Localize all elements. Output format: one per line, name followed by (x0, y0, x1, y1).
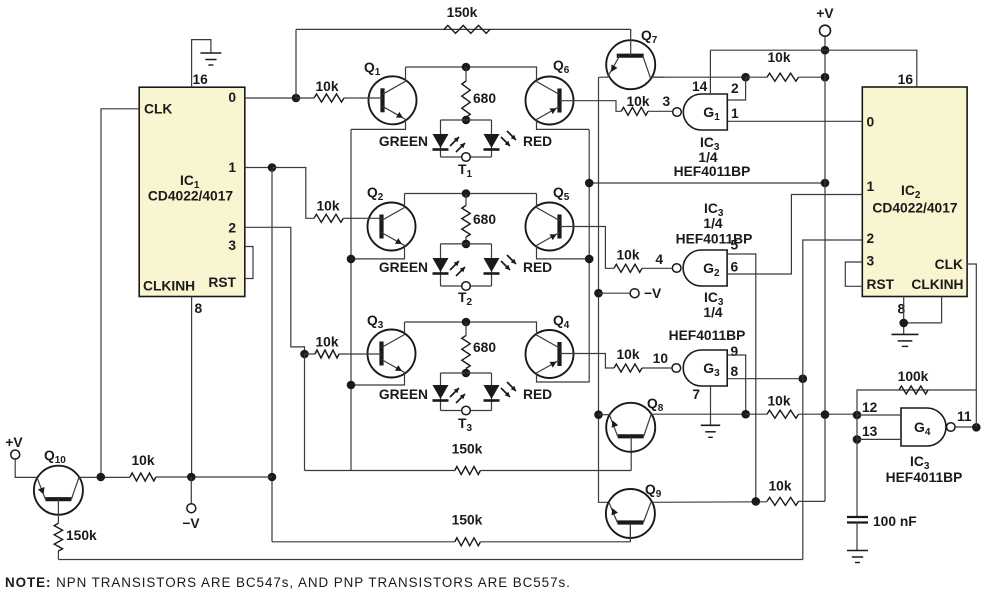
svg-text:RST: RST (867, 277, 895, 292)
label G1 pin3 (663, 94, 671, 109)
LED green row2 (433, 258, 449, 274)
svg-text:14: 14 (692, 79, 708, 94)
label 10k Q9 row (768, 478, 791, 493)
wire +V to Q10 emitter (15, 459, 37, 477)
resistor R 10k G3 (614, 364, 642, 372)
junction +V rail16 (821, 46, 830, 55)
wire 150k row1 to Q8 base (480, 447, 631, 471)
wire 10k to Q4 base (584, 354, 615, 369)
resistor R 150k Q10 (54, 523, 62, 551)
ground G3 pin7 (701, 425, 720, 437)
wire Q8 row to +V (746, 413, 857, 415)
label Q8 (647, 396, 664, 414)
svg-text:2: 2 (228, 221, 236, 236)
junction Q2 emitter (347, 255, 356, 264)
IC1 name IC1 (180, 173, 200, 191)
wire IC1 pin1 row (245, 167, 272, 169)
svg-text:10k: 10k (616, 248, 639, 263)
terminal -V left (187, 504, 196, 513)
resistor R 680 row3 (462, 322, 470, 373)
svg-text:T3: T3 (458, 416, 472, 434)
label G2 IC3 (704, 201, 724, 219)
svg-text:10k: 10k (626, 94, 649, 109)
label RED row3 (523, 387, 552, 402)
junction row1 rail (462, 63, 471, 72)
wire 10k to Q1 base (296, 97, 359, 99)
svg-text:4: 4 (655, 252, 663, 267)
label G2 pin5 (731, 238, 739, 253)
note text (5, 575, 571, 590)
label G2 pin4 (655, 252, 663, 267)
resistor R 10k Q1 (314, 94, 344, 102)
label G1 pin1 (731, 106, 739, 121)
svg-text:RED: RED (523, 134, 552, 149)
label G3 HEF4011BP (669, 328, 746, 343)
wire IC2 CLK to G4 out (967, 264, 976, 390)
IC2 pin label 1 (867, 179, 875, 194)
label G3 pin10 (653, 351, 669, 366)
wire Q7 emitter bus (598, 77, 600, 500)
wire Q7 collector row (650, 76, 745, 78)
label GREEN row1 (379, 134, 428, 149)
svg-text:100 nF: 100 nF (873, 514, 917, 529)
terminal +V bottom left (11, 450, 20, 459)
svg-text:680: 680 (473, 340, 496, 355)
label 150k Q8 (452, 442, 483, 457)
label 10k G3 (616, 347, 639, 362)
svg-text:Q3: Q3 (367, 313, 384, 331)
svg-text:1/4: 1/4 (698, 150, 718, 165)
wire Q9 collector row (651, 501, 767, 504)
LED red row3 (484, 385, 500, 401)
terminal T1 (462, 153, 471, 162)
gate G3 NAND (672, 350, 727, 386)
IC1 pin label 2 (228, 221, 236, 236)
wire G2 out to 10k (642, 267, 672, 269)
wire G3 pin9 (727, 355, 746, 414)
wire IC1 pin8 down (191, 297, 193, 478)
svg-text:100k: 100k (898, 369, 929, 384)
wire IC1 pin0 row (245, 97, 296, 99)
label GREEN row2 (379, 260, 428, 275)
label Q6 (553, 58, 570, 76)
wire pin0 riser (295, 29, 297, 98)
svg-text:10k: 10k (767, 50, 790, 65)
junction G4 pin13 (853, 435, 862, 444)
label G4 pin12 (862, 400, 878, 415)
svg-text:12: 12 (862, 400, 878, 415)
LED red row1 (484, 134, 500, 150)
svg-text:10k: 10k (768, 478, 791, 493)
wire G4 feedback (857, 390, 976, 427)
svg-text:10k: 10k (315, 334, 338, 349)
junction 10k +V (821, 73, 830, 82)
svg-text:13: 13 (862, 424, 878, 439)
svg-text:9: 9 (731, 344, 739, 359)
svg-text:3: 3 (663, 94, 671, 109)
wire LED box row2 (441, 244, 492, 286)
label G2 pin6 (731, 260, 739, 275)
svg-text:1: 1 (731, 106, 739, 121)
junction G3 pin8 (799, 374, 808, 383)
wire Q10 150k to rail (57, 551, 59, 560)
junction -V left (187, 473, 196, 482)
label +V top (816, 6, 834, 21)
svg-text:HEF4011BP: HEF4011BP (886, 470, 963, 485)
wire 10k to Q5 base (584, 227, 615, 269)
ground at IC1 pin16 (200, 53, 221, 65)
label G3 1/4 (703, 305, 723, 320)
terminal -V right (630, 289, 639, 298)
wire IC1 pin2 row (245, 227, 305, 354)
label Q9 (645, 482, 662, 500)
resistor R 680 row2 (462, 194, 470, 244)
wire 10k to Q6 base (584, 101, 622, 112)
junction Q8 row +V (821, 410, 830, 419)
IC1 pin label 3 (228, 238, 236, 253)
wire rail to Q7 base (630, 29, 632, 31)
wire pin2 net down (304, 354, 306, 471)
svg-text:0: 0 (228, 90, 236, 105)
LED green row1 (433, 134, 449, 150)
label +V bottom left (5, 435, 23, 450)
svg-text:7: 7 (692, 387, 700, 402)
wire bottom rail (58, 559, 802, 561)
wire Q9 base (629, 524, 631, 542)
resistor R 10k Q3 (305, 350, 358, 358)
IC IC2 CD4022/4017 body (862, 87, 967, 297)
wire Q8 emitter row (599, 414, 610, 416)
svg-text:16: 16 (898, 72, 914, 87)
junction -V right bus (594, 289, 603, 298)
wire G4 in tie (856, 415, 858, 439)
label 10k pullup G1 (767, 50, 790, 65)
svg-text:16: 16 (193, 72, 209, 87)
wire 10k to +V (746, 76, 825, 78)
LED green arrows row2 (450, 261, 465, 276)
wire pin13 to cap (856, 439, 858, 517)
wire G3 out to 10k (642, 367, 672, 369)
label 150k top (447, 5, 478, 20)
wire LED box row1 (441, 120, 492, 157)
wire emitter rail to +V (589, 182, 825, 184)
svg-text:GREEN: GREEN (379, 134, 428, 149)
wire row2 rail (405, 193, 537, 195)
transistor Q2 (351, 194, 416, 259)
label G3 IC3 (704, 290, 724, 308)
transistor Q9 (606, 489, 655, 538)
svg-text:11: 11 (957, 409, 972, 424)
label Q10 (44, 448, 66, 466)
junction emitter rail +V (821, 179, 830, 188)
junction row3 rail (462, 318, 471, 327)
wire cap to ground (856, 523, 858, 551)
label G3 pin7 (692, 387, 700, 402)
resistor R 100k (899, 386, 928, 394)
IC1 label CLK (144, 102, 172, 117)
ground below cap (847, 551, 868, 563)
LED green row3 (433, 385, 449, 401)
wire Q10 base (57, 499, 59, 523)
svg-text:HEF4011BP: HEF4011BP (674, 164, 751, 179)
transistor Q5 (526, 194, 590, 259)
svg-text:CD4022/4017: CD4022/4017 (148, 189, 233, 204)
wire G3 pin7 ground stub (710, 386, 712, 425)
junction pin1 (268, 163, 277, 172)
label RED row1 (523, 134, 552, 149)
label Q7 (641, 28, 658, 46)
wire IC1 CLK left down (101, 109, 139, 477)
svg-text:CLKINH: CLKINH (911, 277, 963, 292)
svg-text:+V: +V (5, 435, 23, 450)
wire G4 pin13 (857, 438, 901, 440)
IC1 label RST (208, 275, 236, 290)
label G1 IC3 (700, 135, 720, 153)
wire G1 pin1 to IC2 pin0 (727, 120, 862, 122)
label Q4 (553, 313, 570, 331)
svg-text:10k: 10k (315, 79, 338, 94)
svg-text:150k: 150k (66, 528, 97, 543)
transistor Q8 (606, 403, 655, 452)
wire -V right stub (599, 292, 631, 294)
IC2 name IC2 (901, 183, 921, 201)
transistor Q3 (351, 322, 416, 385)
label T3 (458, 416, 472, 434)
svg-text:Q2: Q2 (367, 185, 384, 203)
LED green arrows row3 (450, 388, 465, 403)
IC2 label CLK (935, 257, 963, 272)
svg-text:8: 8 (195, 301, 203, 316)
label 10k G2 (616, 248, 639, 263)
resistor R 10k G1 (621, 107, 648, 115)
junction Q8 row G3pin9 (741, 410, 750, 419)
resistor R 680 row1 (462, 67, 470, 120)
junction Q10-CLK (97, 473, 106, 482)
wire PNP emitter bus (588, 129, 590, 382)
svg-text:CLK: CLK (935, 257, 963, 272)
wire pin1 to Q2 10k (272, 168, 314, 219)
wire Q9 emitter elbow (599, 500, 609, 502)
label RED row2 (523, 260, 552, 275)
wire LED box row3 (441, 373, 492, 411)
svg-text:8: 8 (731, 364, 739, 379)
gate G2 NAND (672, 250, 727, 286)
svg-text:3: 3 (228, 238, 236, 253)
junction emitter rail left (585, 179, 594, 188)
svg-text:150k: 150k (452, 442, 483, 457)
label Q1 (364, 60, 381, 78)
label G3 pin9 (731, 344, 739, 359)
svg-text:10: 10 (653, 351, 669, 366)
terminal T2 (462, 282, 471, 291)
transistor Q1 (351, 67, 417, 129)
svg-text:5: 5 (731, 238, 739, 253)
svg-text:−V: −V (182, 516, 200, 531)
LED red arrows row1 (501, 131, 516, 146)
junction IC2 ground (899, 319, 908, 328)
LED green arrows row1 (450, 137, 465, 152)
svg-text:NOTE: NPN TRANSISTORS ARE BC54: NOTE: NPN TRANSISTORS ARE BC547s, AND PN… (5, 575, 571, 590)
IC1 pin label 1 (228, 160, 236, 175)
label G4 HEF4011BP (886, 470, 963, 485)
transistor Q7 (599, 30, 665, 89)
label 100 nF (873, 514, 917, 529)
svg-text:Q4: Q4 (553, 313, 570, 331)
label GREEN row3 (379, 387, 428, 402)
wire pin1 net down (271, 168, 273, 542)
wire G2 pin5 (727, 254, 756, 501)
resistor R 150k Q9 (455, 538, 481, 546)
label 10k G1 (626, 94, 649, 109)
junction Q8 emitter (594, 410, 603, 419)
label G4 pin13 (862, 424, 878, 439)
svg-text:150k: 150k (452, 513, 483, 528)
svg-text:−V: −V (644, 286, 662, 301)
resistor R 10k G2 (614, 264, 642, 272)
junction row1 LED top (462, 116, 471, 125)
junction pin1 net x Q10 row (268, 473, 277, 482)
label 150k Q9 (452, 513, 483, 528)
resistor R 150k top (444, 25, 490, 33)
junction Q9 row G2pin5 (752, 497, 761, 506)
svg-text:1/4: 1/4 (703, 216, 723, 231)
ground below IC2 (892, 334, 919, 346)
label G1 pin2 (731, 81, 739, 96)
label 10k Q10 (131, 453, 154, 468)
svg-text:10k: 10k (616, 347, 639, 362)
transistor Q10 (34, 466, 83, 515)
wire row3 rail (405, 321, 538, 323)
IC1 pin label 16 (193, 72, 209, 87)
wire Q10 collector row (79, 476, 130, 478)
resistor R 10k Q9 row (767, 497, 799, 505)
junction Q3 emitter (347, 381, 356, 390)
label 680 row1 (473, 91, 496, 106)
junction G1 pin2 node (741, 73, 750, 82)
label 680 row3 (473, 340, 496, 355)
svg-text:GREEN: GREEN (379, 387, 428, 402)
wire G1 pin2 (727, 77, 745, 100)
svg-text:1: 1 (228, 160, 236, 175)
wire IC1 pin16 to ground (192, 40, 211, 88)
LED red arrows row3 (501, 382, 516, 397)
resistor R 10k Q10 (130, 473, 156, 481)
label T2 (458, 290, 472, 308)
svg-text:10k: 10k (131, 453, 154, 468)
svg-text:2: 2 (731, 81, 739, 96)
svg-text:150k: 150k (447, 5, 478, 20)
svg-text:RED: RED (523, 260, 552, 275)
svg-text:1/4: 1/4 (703, 305, 723, 320)
svg-text:Q1: Q1 (364, 60, 381, 78)
wire IC2 pin3 to RST (845, 262, 862, 286)
svg-text:Q10: Q10 (44, 448, 66, 466)
wire G1 out to 10k (648, 110, 673, 112)
resistor R 150k Q8 (455, 467, 481, 475)
wire 150k row2 to Q9 base (480, 523, 630, 542)
wire G4 out (955, 426, 976, 428)
label 10k Q3 (315, 334, 338, 349)
wire 10k to Q2 base (343, 217, 357, 219)
label 150k Q10 (66, 528, 97, 543)
svg-text:0: 0 (867, 115, 875, 130)
IC1 pin label 8 (195, 301, 203, 316)
wire 150k row2 feed (272, 541, 455, 543)
gate G4 NAND (901, 408, 955, 446)
label G4 pin11 (957, 409, 972, 424)
svg-text:RED: RED (523, 387, 552, 402)
wire +V down (824, 36, 826, 501)
wire Q8 base (630, 437, 632, 447)
capacitor C 100nF (847, 517, 868, 523)
label G1 1/4 (698, 150, 718, 165)
wire IC2 pin2 (803, 240, 863, 560)
label Q3 (367, 313, 384, 331)
label 10k Q8 row (767, 394, 790, 409)
svg-text:6: 6 (731, 260, 739, 275)
terminal T3 (462, 406, 471, 415)
label -V right (644, 286, 662, 301)
svg-text:3: 3 (867, 254, 875, 269)
IC2 name CD4022/4017 (872, 201, 957, 216)
svg-text:RST: RST (208, 275, 236, 290)
wire 150k top rail (296, 28, 631, 30)
svg-text:HEF4011BP: HEF4011BP (676, 232, 753, 247)
gate G1 NAND (673, 94, 728, 130)
junction row2 rail (462, 189, 471, 198)
svg-text:10k: 10k (767, 394, 790, 409)
wire +V rail to IC2 pin16 (710, 50, 916, 87)
svg-text:2: 2 (867, 231, 875, 246)
junction pin0 (292, 94, 301, 103)
junction pin2 net (300, 350, 309, 359)
svg-text:+V: +V (816, 6, 834, 21)
label -V left (182, 516, 200, 531)
svg-text:680: 680 (473, 212, 496, 227)
IC2 pin label 3 (867, 254, 875, 269)
IC2 pin label 8 (898, 302, 906, 317)
wire Q8 collector row (651, 413, 746, 415)
resistor R 10k Q2 (314, 214, 343, 222)
IC2 pin label 0 (867, 115, 875, 130)
svg-text:680: 680 (473, 91, 496, 106)
wire emitter bus left (350, 129, 352, 470)
IC2 label CLKINH (911, 277, 963, 292)
label G4 IC3 (910, 454, 930, 472)
wire G2 pin6 to IC2 pin1 (727, 195, 862, 275)
wire -V stub (190, 477, 192, 504)
wire G3 pin8 (727, 378, 803, 380)
IC1 name CD4022/4017 (148, 189, 233, 204)
transistor Q4 (526, 322, 590, 382)
wire 150k row1 feed (305, 470, 455, 472)
label G2 HEF4011BP (676, 232, 753, 247)
label Q5 (553, 185, 570, 203)
IC1 pin label 0 (228, 90, 236, 105)
wire row1 rail (406, 66, 538, 68)
label G1 HEF4011BP (674, 164, 751, 179)
svg-text:GREEN: GREEN (379, 260, 428, 275)
LED red row2 (484, 258, 500, 274)
junction Q5 emitter (585, 255, 594, 264)
svg-text:Q6: Q6 (553, 58, 570, 76)
resistor R 10k Q8 row (767, 410, 799, 418)
label T1 (458, 162, 472, 180)
transistor Q6 (526, 67, 590, 129)
IC2 pin label 16 (898, 72, 914, 87)
junction G4 pin12 (853, 411, 862, 420)
resistor R 10k pullup G1 (767, 73, 799, 81)
